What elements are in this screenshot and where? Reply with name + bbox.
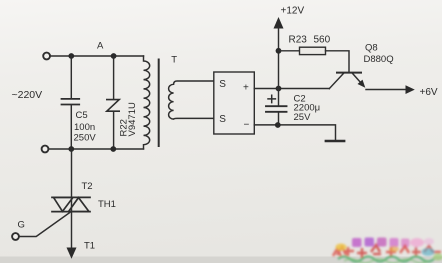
svg-text:+6V: +6V — [420, 87, 438, 98]
junction: +12V rail on + wire — [276, 86, 282, 92]
svg-text:+12V: +12V — [281, 6, 305, 17]
terminal: AC input lower — [42, 146, 49, 153]
terminal: gate G — [12, 233, 19, 240]
wire: emitter to +6V output — [366, 89, 406, 91]
varistor R22 — [107, 56, 119, 149]
resistor R23 — [300, 47, 326, 54]
transformer T secondary winding — [169, 81, 214, 119]
junction: R23 branch — [276, 48, 282, 54]
triac TH1 — [52, 197, 90, 211]
watermark logo — [333, 238, 442, 263]
svg-text:25V: 25V — [294, 112, 312, 123]
value label C2 2200u 25V — [294, 94, 321, 123]
value label R22 V9471U (rotated) — [119, 102, 139, 136]
arrow: +6V output — [406, 85, 415, 94]
transformer T primary winding — [144, 56, 150, 149]
wire: bridge + output to collector — [254, 88, 329, 90]
junction: top rail / R22 branch — [111, 53, 117, 59]
wire: triac main terminal T1 lead — [71, 198, 73, 249]
wire: bottom rail down to triac T2 — [71, 149, 73, 197]
junction: C2 negative on - wire — [275, 122, 281, 128]
wire: bottom AC rail — [49, 148, 144, 150]
wire: bridge - output to ground — [254, 125, 335, 141]
wire: rail to R23 — [279, 50, 300, 52]
svg-text:T: T — [171, 55, 177, 66]
part label Q8 D880Q — [364, 43, 394, 66]
wire: R23 to Q8 base — [326, 51, 350, 72]
wire: +12V rail down to C2 — [278, 28, 280, 106]
wire: gate lead — [19, 213, 70, 237]
arrow: T1 terminal — [67, 248, 77, 259]
svg-text:R23: R23 — [289, 35, 308, 46]
svg-text:S: S — [219, 114, 226, 125]
svg-text:D880Q: D880Q — [364, 54, 394, 65]
svg-text:G: G — [18, 220, 25, 231]
power +12V arrow — [274, 17, 284, 29]
bridge rectifier — [214, 72, 255, 134]
value label R23 560 — [289, 35, 331, 46]
svg-text:T1: T1 — [84, 241, 95, 252]
svg-text:Q8: Q8 — [365, 43, 378, 54]
svg-text:250V: 250V — [74, 133, 97, 144]
transformer T core — [158, 60, 160, 147]
wire: top AC rail from terminal to transformer primary — [50, 55, 143, 57]
capacitor C5 — [62, 56, 80, 149]
svg-text:T2: T2 — [82, 181, 93, 192]
junction: bottom rail / R22 — [110, 146, 116, 152]
svg-text:560: 560 — [314, 35, 331, 46]
transistor Q8 — [329, 73, 365, 89]
ground — [326, 140, 344, 142]
svg-text:V9471U: V9471U — [127, 102, 138, 136]
svg-text:S: S — [219, 79, 226, 90]
junction: bottom rail / C5 — [68, 146, 74, 152]
svg-text:−: − — [244, 120, 250, 131]
svg-text:A: A — [97, 41, 104, 52]
svg-text:+: + — [243, 82, 249, 93]
svg-text:C5: C5 — [76, 110, 88, 121]
svg-text:100n: 100n — [74, 122, 95, 133]
terminal: AC input upper — [43, 53, 50, 60]
junction: node A dot on top rail — [68, 53, 74, 59]
svg-text:~220V: ~220V — [12, 89, 43, 101]
capacitor C2 (electrolytic) — [266, 95, 287, 125]
svg-text:TH1: TH1 — [98, 199, 116, 210]
value label C5 100n 250V — [74, 110, 97, 144]
